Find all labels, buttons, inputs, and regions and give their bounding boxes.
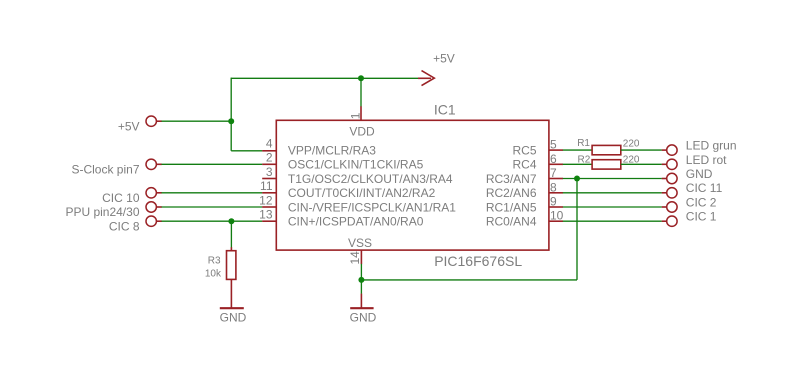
svg-text:VDD: VDD xyxy=(349,125,375,139)
resistor R3 body xyxy=(227,247,236,279)
svg-text:COUT/T0CKI/INT/AN2/RA2: COUT/T0CKI/INT/AN2/RA2 xyxy=(288,186,436,200)
ground symbol pin (center) xyxy=(360,294,362,308)
svg-text:R3: R3 xyxy=(208,255,221,266)
wire +5V top rail horizontal xyxy=(231,77,420,79)
svg-text:+5V: +5V xyxy=(118,120,140,134)
wire +5V pin to rail xyxy=(162,120,232,122)
svg-text:10k: 10k xyxy=(205,269,222,280)
svg-text:GND: GND xyxy=(220,311,247,325)
wire S-Clock to pin2 xyxy=(162,163,263,165)
svg-text:CIC 10: CIC 10 xyxy=(102,191,140,205)
svg-text:PIC16F676SL: PIC16F676SL xyxy=(434,253,522,269)
svg-text:CIN-/VREF/ICSPCLK/AN1/RA1: CIN-/VREF/ICSPCLK/AN1/RA1 xyxy=(288,200,456,214)
svg-text:GND: GND xyxy=(686,167,713,181)
svg-text:7: 7 xyxy=(550,166,557,180)
svg-text:RC4: RC4 xyxy=(512,158,536,172)
svg-text:RC2/AN6: RC2/AN6 xyxy=(486,186,537,200)
svg-text:PPU pin24/30: PPU pin24/30 xyxy=(65,205,139,219)
svg-text:LED grun: LED grun xyxy=(686,139,737,153)
junction VSS/GND xyxy=(358,277,364,283)
supply symbol +5V arrow xyxy=(418,71,434,86)
wire pin7 to GND pin xyxy=(563,178,662,180)
svg-text:OSC1/CLKIN/T1CKI/RA5: OSC1/CLKIN/T1CKI/RA5 xyxy=(288,158,424,172)
wire VSS pin to junction xyxy=(360,264,362,294)
svg-text:+5V: +5V xyxy=(433,51,455,65)
svg-text:11: 11 xyxy=(260,179,273,193)
svg-text:10: 10 xyxy=(550,209,564,223)
wire R3 to ground symbol xyxy=(230,279,232,307)
wire GND net horizontal to VSS xyxy=(361,279,577,281)
pin 12 stub xyxy=(262,206,276,208)
junction GND net tee xyxy=(574,176,580,182)
svg-text:IC1: IC1 xyxy=(434,102,456,118)
svg-text:8: 8 xyxy=(550,180,557,194)
pin 10 stub xyxy=(549,220,563,222)
pin 11 stub xyxy=(262,192,276,194)
svg-text:VSS: VSS xyxy=(348,236,372,250)
junction CIC8 / R3 tee xyxy=(228,218,234,224)
connector pin +5V (left) xyxy=(146,116,162,126)
svg-text:2: 2 xyxy=(266,151,273,165)
pin 5 stub xyxy=(549,149,563,151)
wire R1 to LED grun pin xyxy=(621,149,662,151)
connector pin CIC 10 xyxy=(146,188,162,198)
wire pin8 to CIC 11 pin xyxy=(563,192,662,194)
pin 3 stub xyxy=(262,178,276,180)
wire VDD rail to pin1 xyxy=(360,78,362,106)
resistor R1 body xyxy=(592,145,621,154)
svg-text:LED rot: LED rot xyxy=(686,153,727,167)
wire CIC8 to pin13 xyxy=(162,220,263,222)
svg-text:14: 14 xyxy=(348,251,362,265)
svg-text:RC1/AN5: RC1/AN5 xyxy=(486,200,537,214)
connector pin GND xyxy=(662,173,677,183)
pin 14 VSS stub xyxy=(360,250,362,264)
svg-text:220: 220 xyxy=(623,138,640,149)
pin 1 VDD stub xyxy=(360,106,362,120)
svg-text:GND: GND xyxy=(350,311,377,325)
resistor R2 body xyxy=(592,160,621,169)
svg-text:CIC 11: CIC 11 xyxy=(686,181,723,195)
svg-text:1: 1 xyxy=(349,112,363,119)
svg-text:RC5: RC5 xyxy=(512,144,536,158)
connector pin CIC 2 xyxy=(662,202,677,212)
svg-text:R2: R2 xyxy=(578,154,591,165)
junction +5V tee xyxy=(228,118,234,124)
svg-text:3: 3 xyxy=(266,165,273,179)
wire down to R3 xyxy=(230,221,232,247)
pin 8 stub xyxy=(549,192,563,194)
wire into IC pin4 xyxy=(231,150,262,152)
svg-text:4: 4 xyxy=(266,137,273,151)
svg-text:13: 13 xyxy=(259,208,273,222)
svg-text:CIC 2: CIC 2 xyxy=(686,195,717,209)
pin 2 stub xyxy=(262,163,276,165)
connector pin CIC 8 xyxy=(146,216,162,226)
pin 7 stub xyxy=(549,178,563,180)
svg-text:S-Clock pin7: S-Clock pin7 xyxy=(71,162,139,176)
svg-text:RC3/AN7: RC3/AN7 xyxy=(486,172,537,186)
svg-text:CIC 8: CIC 8 xyxy=(109,219,140,233)
svg-text:6: 6 xyxy=(550,152,557,166)
wire CIC10 to pin11 xyxy=(162,192,263,194)
pin 4 stub xyxy=(262,150,276,152)
wire pin6 to R2 xyxy=(563,163,593,165)
ground symbol (center) xyxy=(350,307,373,309)
wire pin10 to CIC 1 pin xyxy=(563,220,662,222)
svg-text:CIN+/ICSPDAT/AN0/RA0: CIN+/ICSPDAT/AN0/RA0 xyxy=(288,215,424,229)
svg-text:T1G/OSC2/CLKOUT/AN3/RA4: T1G/OSC2/CLKOUT/AN3/RA4 xyxy=(288,172,453,186)
pin 6 stub xyxy=(549,163,563,165)
svg-text:5: 5 xyxy=(550,138,557,152)
wire R2 to LED rot pin xyxy=(621,163,662,165)
svg-text:VPP/MCLR/RA3: VPP/MCLR/RA3 xyxy=(288,144,376,158)
svg-text:9: 9 xyxy=(550,195,557,209)
connector pin CIC 11 xyxy=(662,188,677,198)
wire pin9 to CIC 2 pin xyxy=(563,206,662,208)
svg-text:R1: R1 xyxy=(577,138,590,149)
connector pin LED grun xyxy=(662,145,677,155)
svg-text:CIC 1: CIC 1 xyxy=(686,210,717,224)
pin 13 stub xyxy=(262,220,276,222)
connector pin PPU pin24/30 xyxy=(146,202,162,212)
wire PPU to pin12 xyxy=(162,206,263,208)
svg-text:12: 12 xyxy=(259,193,273,207)
svg-text:RC0/AN4: RC0/AN4 xyxy=(486,215,537,229)
connector pin S-Clock xyxy=(146,159,162,169)
wire GND net vertical down xyxy=(576,179,578,280)
junction on +5V rail at pin1 xyxy=(358,75,364,81)
pin 9 stub xyxy=(549,206,563,208)
IC IC1 PIC16F676SL body xyxy=(276,120,549,250)
connector pin LED rot xyxy=(662,159,677,169)
wire pin5 to R1 xyxy=(563,149,593,151)
connector pin CIC 1 xyxy=(662,216,677,226)
wire vertical +5V rail down to pin4 feed xyxy=(230,78,232,151)
ground symbol (left) xyxy=(220,307,244,309)
